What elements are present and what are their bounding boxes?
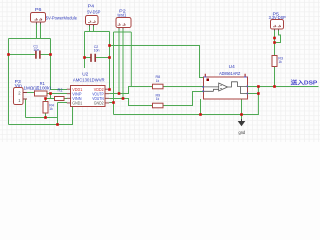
wire P3 pin2 to R1 xyxy=(27,92,35,94)
wire U4 output line to DSP xyxy=(247,86,318,88)
wire GND2 to rail xyxy=(109,103,113,115)
resistor R8 xyxy=(153,74,164,89)
wire P2 left drop to GND2 node xyxy=(113,32,115,103)
junction R4 top xyxy=(44,97,47,100)
wire R2 to VINN xyxy=(64,98,67,100)
resistor R1 xyxy=(24,81,52,96)
svg-text:1k: 1k xyxy=(156,78,159,83)
svg-text:1MΩ(或100k): 1MΩ(或100k) xyxy=(24,84,52,90)
svg-text:U2: U2 xyxy=(82,72,89,77)
connector P3 xyxy=(14,79,28,105)
junction R4 bottom xyxy=(44,116,47,119)
svg-text:GND1: GND1 xyxy=(72,101,82,106)
svg-text:gnd: gnd xyxy=(239,130,246,135)
svg-text:AMC1301DWVR: AMC1301DWVR xyxy=(73,77,105,82)
wire P4 branch bar xyxy=(85,31,110,33)
svg-text:Vin: Vin xyxy=(15,83,23,88)
comparator U4 AD8561 xyxy=(203,64,247,99)
svg-text:AD8561ARZ: AD8561ARZ xyxy=(219,71,241,76)
wire P2 legs xyxy=(119,28,123,99)
wire R9 to U4 plus input xyxy=(163,92,203,106)
svg-text:送入DSP: 送入DSP xyxy=(290,78,318,86)
wire P4 legs xyxy=(90,25,94,32)
wire P4 right drop to VDD2 xyxy=(109,32,111,90)
wire P3 pin1 drop xyxy=(26,99,27,118)
wire R1 to VINP xyxy=(47,93,67,95)
header pin stubs (dark) xyxy=(37,22,279,30)
svg-text:P4: P4 xyxy=(88,4,95,10)
junction outer rail xyxy=(56,123,59,126)
junction node A xyxy=(49,92,52,95)
wire left vertical from P6 to bottom rail xyxy=(8,39,10,125)
junction VDD2 xyxy=(108,88,111,91)
svg-text:test1: test1 xyxy=(118,12,127,17)
svg-text:1k: 1k xyxy=(156,96,159,101)
svg-text:3.3V-DSP: 3.3V-DSP xyxy=(269,15,286,20)
junction rail gnd xyxy=(240,113,243,116)
op-amp U2 AMC1301 xyxy=(67,72,109,107)
junction P5 leg lower xyxy=(273,41,276,44)
wire right vertical from P6 to VDD1 xyxy=(51,39,68,90)
svg-text:10n: 10n xyxy=(33,47,39,52)
svg-text:5V-DSP: 5V-DSP xyxy=(87,10,100,16)
wire U4 inverted output xyxy=(247,93,258,95)
resistor R9 xyxy=(153,93,164,108)
svg-text:P6: P6 xyxy=(35,7,42,13)
junction VOUTP xyxy=(118,92,121,95)
junction inverted output xyxy=(257,92,260,95)
wire bottom rail right xyxy=(114,87,259,115)
svg-text:10n: 10n xyxy=(94,48,100,53)
junction U4 feed xyxy=(108,44,111,47)
wire C1 leads xyxy=(9,54,51,56)
wire gnd drop xyxy=(241,99,243,121)
wire R4 bottom lead xyxy=(45,113,47,118)
wire GND1 xyxy=(58,103,68,125)
resistor R4 xyxy=(43,102,55,114)
connector P2 xyxy=(116,8,131,27)
wire VOUTN to R9 xyxy=(109,99,152,106)
wire R3 bottom lead xyxy=(274,66,276,86)
junction rail U4 xyxy=(199,113,202,116)
wire P4 left drop to C2 xyxy=(84,32,86,69)
junction C1 right xyxy=(49,53,52,56)
junction C2 left xyxy=(83,56,86,59)
svg-text:GND2: GND2 xyxy=(94,101,104,106)
wire P6 legs xyxy=(37,23,41,39)
junction R3 bottom xyxy=(273,85,276,88)
junction C1 left xyxy=(7,53,10,56)
capacitor C1 xyxy=(33,44,40,59)
wire inner ground rail xyxy=(26,117,58,119)
wire R8 to U4 xyxy=(163,86,203,88)
junction VOUTN xyxy=(122,97,125,100)
resistor R2 xyxy=(55,87,65,100)
connector P6 xyxy=(31,7,78,22)
wire P5 legs xyxy=(275,29,281,55)
junction GND2 xyxy=(112,101,115,104)
wire node A down to R2 xyxy=(46,94,55,99)
svg-text:1k: 1k xyxy=(278,59,281,64)
wire C2 leads xyxy=(85,57,110,59)
junction C2 right xyxy=(108,56,111,59)
wire bottom-left outer rail xyxy=(9,107,73,125)
svg-text:5V-PowerModule: 5V-PowerModule xyxy=(46,15,78,21)
wire P2 right drop xyxy=(130,32,132,87)
wire P2 branch bar xyxy=(114,31,132,33)
wire feed to U4 top pin xyxy=(110,46,206,78)
wire R4 top lead xyxy=(45,99,47,102)
svg-text:U4: U4 xyxy=(229,64,236,69)
wire P6 branch bar xyxy=(9,38,51,40)
wire U4 bottom to rail xyxy=(200,99,202,115)
svg-text:1k: 1k xyxy=(49,106,52,111)
resistor R3 xyxy=(272,55,283,66)
capacitor C2 xyxy=(91,44,100,62)
junction P5 leg upper xyxy=(273,37,276,40)
junction output xyxy=(257,85,260,88)
connector P4 xyxy=(86,4,101,25)
ground symbol xyxy=(238,119,246,135)
svg-text:R2: R2 xyxy=(58,87,64,92)
wire VOUTP to R8 xyxy=(109,87,152,94)
connector P5 xyxy=(269,11,286,29)
